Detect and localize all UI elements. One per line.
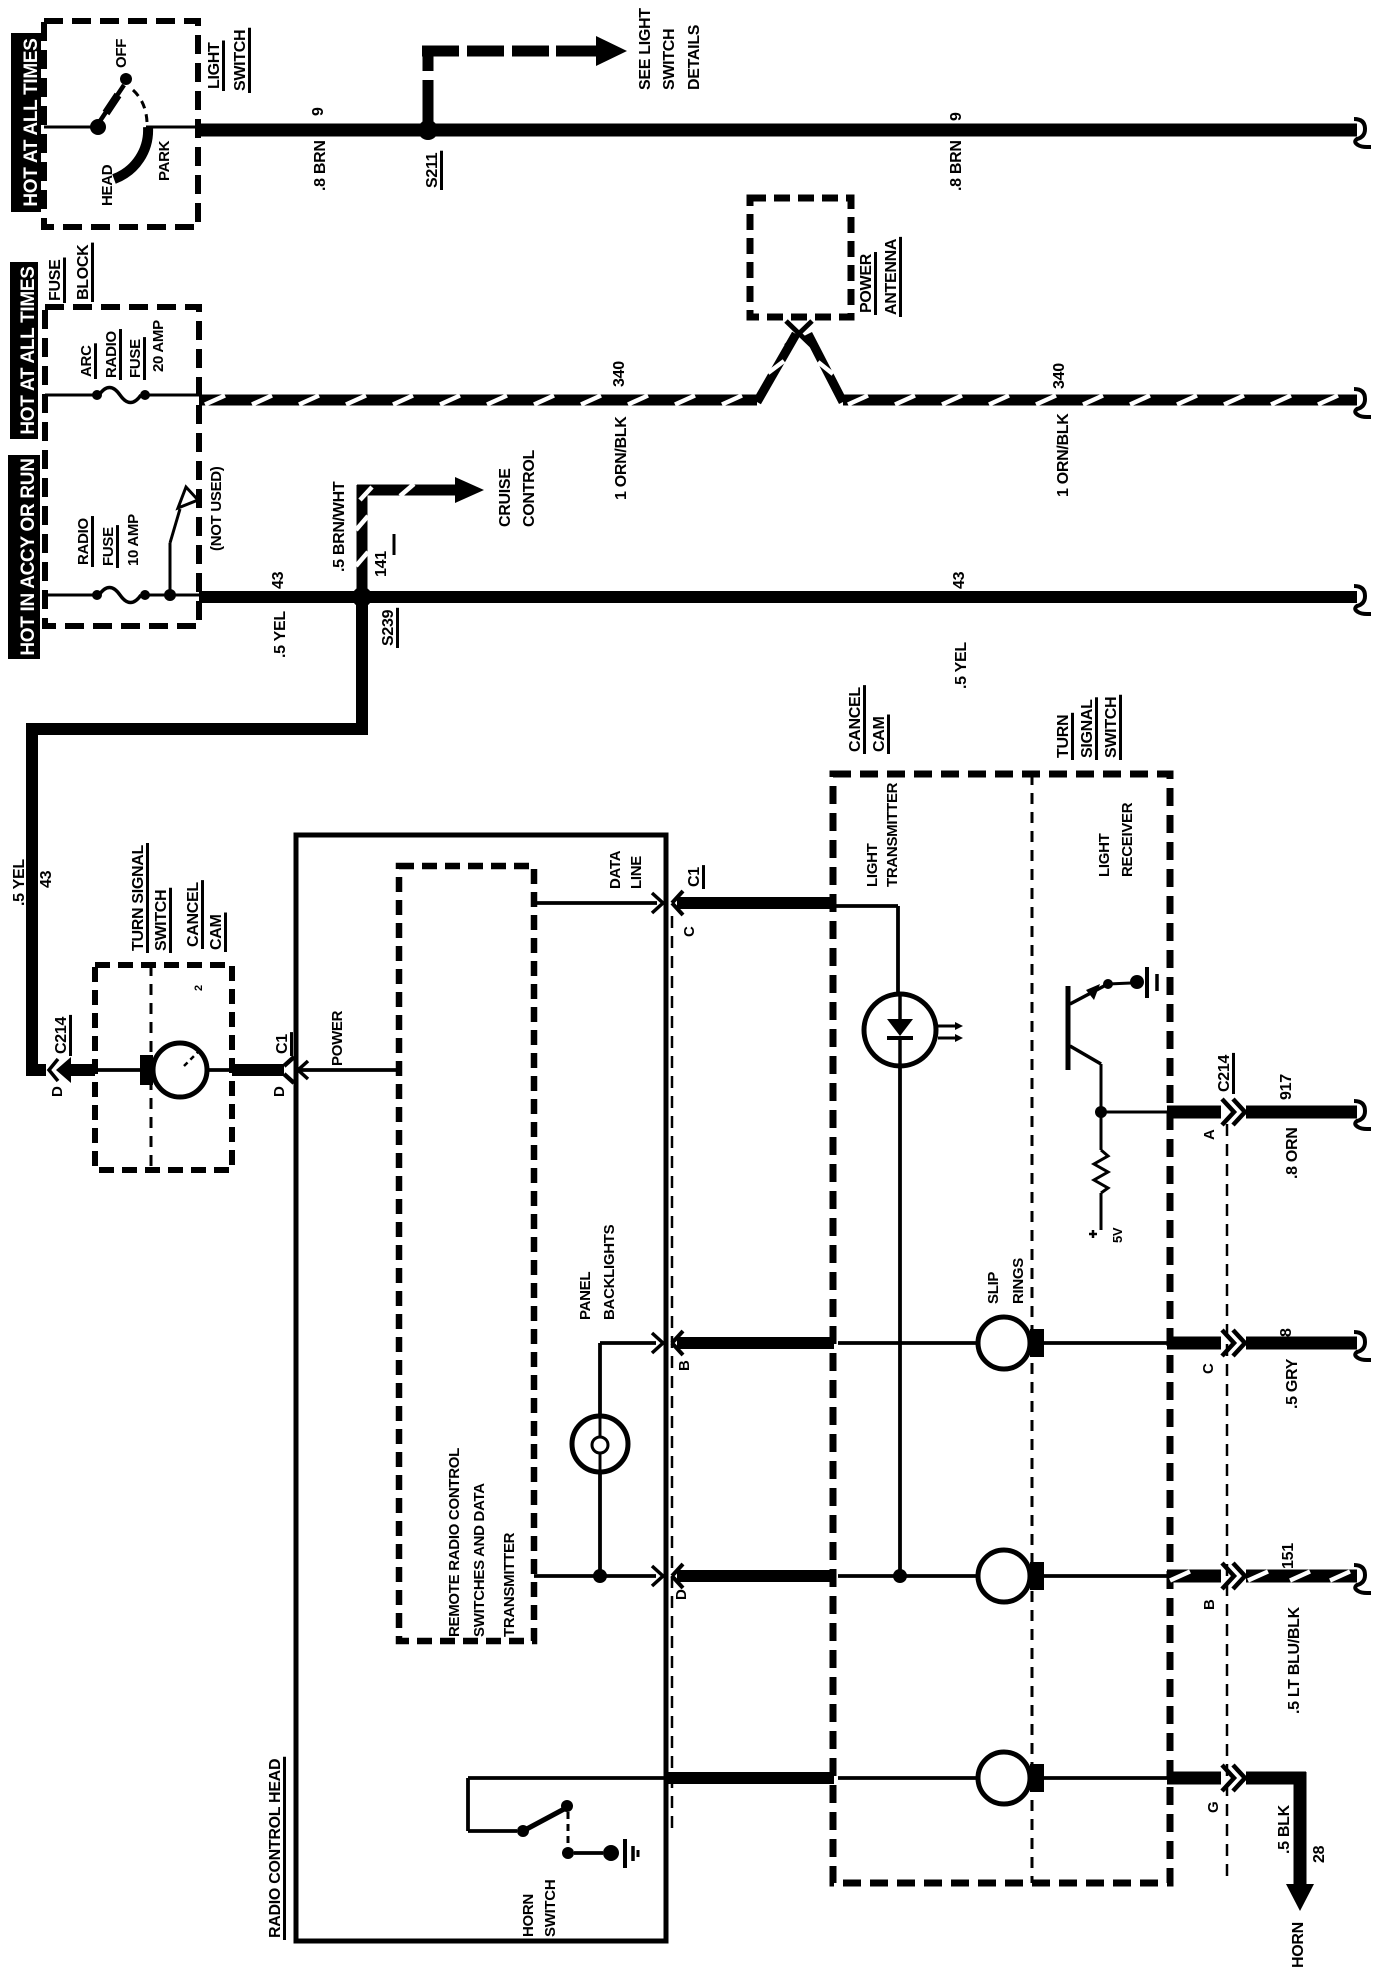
label S239	[380, 608, 398, 648]
divider dashed cancel cam / switch	[1031, 774, 1034, 1883]
label .5 LT BLU/BLK	[1286, 1606, 1303, 1714]
wire .5 BRN/WHT circuit 141 (hatched)	[356, 484, 455, 597]
fuse block dashed box	[45, 307, 199, 626]
wire light switch input	[44, 126, 92, 129]
wire 1 ORN/BLK circuit 340 (hatched)	[199, 334, 1357, 405]
wire DATA LINE	[534, 901, 657, 905]
svg-text:RADIO CONTROL HEAD: RADIO CONTROL HEAD	[267, 1759, 284, 1938]
label C1 (pin D)	[274, 1032, 292, 1056]
phototransistor collector	[1070, 1046, 1101, 1114]
cancel cam contact block	[140, 1055, 153, 1085]
power label HOT AT ALL TIMES (fuse block)	[10, 262, 39, 439]
LED diode symbol	[887, 994, 913, 1066]
label SLIP RINGS	[985, 1258, 1027, 1304]
svg-text:9: 9	[948, 112, 965, 121]
label TURN SIGNAL SWITCH (right)	[1055, 695, 1121, 760]
svg-text:RINGS: RINGS	[1010, 1258, 1027, 1304]
wire .5 GRY circuit 8 (pin C)	[1167, 1337, 1357, 1350]
fuse ARC RADIO FUSE 20 AMP	[92, 388, 199, 403]
svg-text:RADIO: RADIO	[75, 518, 92, 565]
wire collector to pin A	[1101, 1111, 1167, 1114]
label CANCEL CAM (left)	[185, 880, 226, 952]
svg-text:SWITCH: SWITCH	[232, 30, 249, 91]
svg-text:CONTROL: CONTROL	[521, 449, 538, 527]
terminal not used (open)	[178, 487, 198, 508]
svg-text:LINE: LINE	[628, 856, 645, 889]
svg-text:A: A	[1201, 1129, 1218, 1140]
svg-text:.5 LT BLU/BLK: .5 LT BLU/BLK	[1286, 1606, 1303, 1714]
connector C1 pin B fork	[672, 1331, 683, 1355]
label 1 ORN/BLK (left)	[613, 416, 630, 500]
label C (C1)	[681, 926, 698, 937]
label TURN SIGNAL SWITCH (left)	[130, 843, 171, 953]
divider dashed (left box)	[150, 965, 153, 1170]
wire bulb to pin B	[600, 1343, 656, 1417]
label +5V	[1089, 1227, 1125, 1243]
node horn switch contact 1	[517, 1825, 529, 1837]
power label HOT AT ALL TIMES (light switch feed)	[11, 33, 42, 212]
label 43 (left)	[270, 571, 287, 589]
label B (C1)	[676, 1360, 693, 1371]
label 28	[1311, 1845, 1328, 1863]
svg-text:43: 43	[270, 571, 287, 589]
svg-text:141: 141	[373, 551, 390, 577]
label 1 ORN/BLK (right)	[1055, 413, 1072, 497]
svg-text:FUSE: FUSE	[127, 339, 144, 378]
connector C1 pin D fork	[284, 1057, 294, 1083]
svg-text:HORN: HORN	[520, 1894, 537, 1937]
label LIGHT SWITCH	[206, 28, 250, 93]
svg-text:(NOT USED): (NOT USED)	[208, 466, 225, 551]
label C214 (left)	[53, 1015, 71, 1056]
connector C214 pin D (in-line)	[49, 1057, 95, 1083]
svg-text:G: G	[1205, 1802, 1222, 1813]
connector hook .5 LT BLU/BLK	[1354, 1565, 1371, 1593]
wire not-used tap	[170, 509, 180, 595]
node horn switch contact 2	[561, 1800, 573, 1812]
svg-text:TRANSMITTER: TRANSMITTER	[884, 782, 901, 887]
svg-text:C: C	[1200, 1363, 1217, 1374]
turn signal switch dashed box (left)	[95, 965, 232, 1170]
svg-text:SWITCH: SWITCH	[1103, 697, 1120, 758]
wire dashed branch to light switch details	[422, 48, 598, 126]
svg-text:SWITCH: SWITCH	[153, 890, 170, 951]
splice power antenna (X)	[786, 321, 812, 346]
wire pin B to slip ring (thick)	[677, 1337, 834, 1349]
horn switch arm	[523, 1808, 566, 1831]
wire LED cathode down	[898, 1066, 902, 1576]
wire POWER	[298, 1068, 399, 1072]
svg-text:340: 340	[1051, 363, 1068, 389]
label S211	[424, 151, 442, 190]
svg-text:917: 917	[1278, 1074, 1295, 1100]
svg-text:BLOCK: BLOCK	[75, 244, 92, 300]
svg-text:OFF: OFF	[113, 39, 130, 68]
wire .5 BLK circuit 28 (pin G)	[1167, 1772, 1306, 1884]
connector C214 dashed line	[1226, 1124, 1229, 1884]
svg-text:SEE LIGHT: SEE LIGHT	[637, 8, 654, 90]
svg-text:DETAILS: DETAILS	[686, 24, 703, 90]
svg-text:SIGNAL: SIGNAL	[1079, 699, 1096, 758]
svg-text:43: 43	[951, 571, 968, 589]
wire horn to slip ring (thick)	[666, 1772, 834, 1784]
label HEAD	[99, 164, 116, 206]
label HORN (destination)	[1290, 1922, 1307, 1968]
connector C1 pin D arrow	[298, 1061, 308, 1079]
connector hook right end of .5 YEL	[1354, 586, 1371, 614]
label C214 (right)	[1216, 1053, 1234, 1094]
label CRUISE CONTROL	[497, 449, 538, 527]
label D (C214 left)	[49, 1086, 66, 1097]
label REMOTE RADIO CONTROL SWITCHES AND DATA TRANSMITTER	[446, 1448, 518, 1637]
ground (horn switch)	[603, 1839, 638, 1868]
svg-text:RECEIVER: RECEIVER	[1119, 802, 1136, 877]
slip ring 2 (data)	[838, 1550, 1167, 1602]
svg-text:LIGHT: LIGHT	[864, 843, 881, 887]
label PANEL BACKLIGHTS	[577, 1224, 618, 1320]
slip ring 1 (panel lights)	[838, 1317, 1167, 1369]
connector hook right end of ORN/BLK	[1354, 389, 1371, 417]
connector C1 pin C arrow	[652, 893, 663, 913]
wire to ARC radio fuse	[45, 394, 97, 397]
label D (C1)	[271, 1086, 288, 1097]
label RADIO CONTROL HEAD	[267, 1757, 285, 1940]
resistor to 5V	[1094, 1112, 1108, 1230]
svg-text:9: 9	[310, 107, 327, 116]
power label HOT IN ACCY OR RUN	[8, 455, 40, 659]
svg-text:C214: C214	[53, 1017, 70, 1054]
phototransistor base bar	[1066, 986, 1071, 1070]
label .5 BLK	[1276, 1804, 1293, 1854]
label 9 (right)	[948, 112, 965, 121]
light switch PARK-HEAD contact arc	[114, 127, 148, 179]
svg-text:PARK: PARK	[156, 140, 173, 181]
label PARK	[156, 140, 173, 181]
svg-text:S211: S211	[424, 152, 441, 188]
svg-text:SWITCHES AND DATA: SWITCHES AND DATA	[471, 1483, 488, 1637]
svg-text:D: D	[49, 1086, 66, 1097]
slip ring 3 (horn)	[838, 1752, 1167, 1804]
svg-text:TRANSMITTER: TRANSMITTER	[501, 1532, 518, 1637]
label ARC RADIO FUSE 20 AMP	[78, 320, 167, 380]
light switch dashed travel arc	[133, 90, 147, 122]
svg-text:.5 YEL: .5 YEL	[272, 611, 289, 658]
connector C1 pin B arrow	[652, 1333, 663, 1353]
LED emission arrows	[938, 1022, 963, 1042]
svg-text:.5 GRY: .5 GRY	[1284, 1358, 1301, 1409]
node LED to data wire	[893, 1569, 907, 1583]
label 43 (right)	[951, 571, 968, 589]
svg-text:8: 8	[1278, 1328, 1295, 1337]
connector C214 pin C chevrons	[1222, 1330, 1245, 1356]
wire data to cancel cam (thick)	[677, 897, 834, 909]
label POWER ANTENNA	[858, 237, 901, 317]
light transmitter LED circle	[864, 994, 936, 1066]
label .5 YEL (right)	[953, 642, 970, 689]
arrow to SEE LIGHT SWITCH DETAILS	[596, 36, 627, 66]
svg-text:B: B	[1201, 1599, 1218, 1610]
label .8 BRN (left)	[312, 140, 329, 191]
turn signal switch dashed box (right)	[833, 774, 1170, 1883]
wire to horn ground	[574, 1851, 603, 1855]
svg-text:PANEL: PANEL	[577, 1272, 594, 1320]
label LIGHT TRANSMITTER	[864, 782, 901, 887]
cancel cam circle	[153, 1043, 207, 1097]
label .5 GRY	[1284, 1358, 1301, 1409]
svg-text:2: 2	[193, 985, 205, 991]
wire pin D to slip ring (thick)	[677, 1570, 834, 1582]
label DATA LINE	[607, 850, 645, 889]
label 340 (left)	[611, 361, 628, 387]
label CANCEL CAM (right)	[847, 685, 889, 754]
svg-text:340: 340	[611, 361, 628, 387]
phototransistor emitter	[1070, 984, 1106, 1004]
svg-text:1 ORN/BLK: 1 ORN/BLK	[1055, 413, 1072, 497]
node light switch pivot	[90, 119, 106, 135]
wire to RADIO fuse	[45, 594, 97, 597]
radio control head box	[296, 835, 666, 1941]
svg-text:20 AMP: 20 AMP	[150, 320, 167, 372]
node horn switch contact 3	[562, 1847, 574, 1859]
node not-used tap	[164, 589, 176, 601]
svg-text:28: 28	[1311, 1845, 1328, 1863]
svg-text:ANTENNA: ANTENNA	[883, 238, 900, 315]
label SEE LIGHT SWITCH DETAILS	[637, 8, 703, 90]
light switch wiper arm	[100, 85, 124, 121]
svg-text:.8 BRN: .8 BRN	[948, 140, 965, 191]
svg-text:RADIO: RADIO	[103, 331, 120, 378]
svg-text:SLIP: SLIP	[985, 1272, 1002, 1304]
svg-text:CANCEL: CANCEL	[185, 882, 202, 947]
svg-text:FUSE: FUSE	[100, 527, 117, 566]
svg-text:1 ORN/BLK: 1 ORN/BLK	[613, 416, 630, 500]
svg-text:CRUISE: CRUISE	[497, 468, 514, 527]
arrow to horn	[1286, 1884, 1314, 1911]
label D (C1 right)	[673, 1589, 690, 1600]
svg-text:REMOTE RADIO CONTROL: REMOTE RADIO CONTROL	[446, 1448, 463, 1637]
svg-text:BACKLIGHTS: BACKLIGHTS	[601, 1224, 618, 1320]
light switch dashed box	[44, 21, 198, 227]
svg-text:HOT AT ALL TIMES: HOT AT ALL TIMES	[18, 266, 39, 434]
wire .5 LT BLU/BLK circuit 151 (pin B, hatched)	[1167, 1572, 1357, 1581]
svg-text:.5 BRN/WHT: .5 BRN/WHT	[331, 481, 348, 572]
label .5 YEL (vertical)	[11, 859, 28, 906]
label .5 BRN/WHT	[331, 481, 348, 572]
wire to cancel cam contact	[95, 1068, 140, 1072]
cancel cam footnote 2	[193, 985, 205, 991]
node collector junction	[1095, 1106, 1107, 1118]
node light switch OFF contact	[120, 73, 132, 85]
wire horn switch loop	[468, 1778, 666, 1831]
svg-text:B: B	[676, 1360, 693, 1371]
svg-text:POWER: POWER	[329, 1010, 346, 1066]
splice S239	[352, 587, 372, 607]
label B (C214)	[1201, 1599, 1218, 1610]
wire .5 YEL to turn signal switch	[32, 600, 362, 1070]
label 8	[1278, 1328, 1295, 1337]
label 917	[1278, 1074, 1295, 1100]
svg-text:TURN SIGNAL: TURN SIGNAL	[130, 844, 147, 951]
label FUSE BLOCK	[47, 243, 93, 303]
svg-text:43: 43	[38, 870, 55, 888]
svg-text:.8 BRN: .8 BRN	[312, 140, 329, 191]
svg-text:SWITCH: SWITCH	[542, 1880, 559, 1937]
connector C1 pin C fork	[672, 891, 683, 915]
label (NOT USED)	[208, 466, 225, 551]
wire cancel cam to C1	[207, 1068, 284, 1072]
svg-text:.8 ORN: .8 ORN	[1284, 1127, 1301, 1179]
svg-text:FUSE: FUSE	[47, 259, 64, 301]
svg-text:CAM: CAM	[871, 716, 888, 752]
svg-text:151: 151	[1280, 1543, 1297, 1569]
label 9 (left)	[310, 107, 327, 116]
label .5 YEL (left)	[272, 611, 289, 658]
remote radio control switches box	[399, 866, 534, 1641]
fuse RADIO FUSE 10 AMP	[92, 588, 199, 603]
label .8 BRN (right)	[948, 140, 965, 191]
connector hook right end of .8 BRN	[1354, 119, 1371, 147]
svg-text:CAM: CAM	[208, 914, 225, 950]
splice S211	[418, 120, 438, 140]
wire emitter to ground	[1108, 983, 1131, 984]
svg-text:.5 BLK: .5 BLK	[1276, 1804, 1293, 1854]
svg-text:D: D	[673, 1589, 690, 1600]
connector C1 dashed line	[671, 916, 674, 1832]
wire C to LED	[836, 906, 898, 996]
node bulb to data line	[593, 1569, 607, 1583]
svg-text:CANCEL: CANCEL	[847, 687, 864, 752]
label POWER	[329, 1010, 346, 1066]
svg-text:LIGHT: LIGHT	[1096, 833, 1113, 877]
svg-text:HOT IN ACCY OR RUN: HOT IN ACCY OR RUN	[18, 458, 39, 655]
label C (C214)	[1200, 1363, 1217, 1374]
panel backlights bulb	[572, 1416, 628, 1472]
connector C214 pin G chevrons	[1222, 1765, 1245, 1791]
label .8 ORN	[1284, 1127, 1301, 1179]
svg-text:ARC: ARC	[78, 345, 95, 377]
connector hook .5 GRY	[1354, 1332, 1371, 1360]
connector hook .8 ORN	[1354, 1101, 1371, 1129]
svg-text:S239: S239	[380, 609, 397, 646]
wire transmitter to pin D	[534, 1472, 656, 1576]
node emitter junction	[1103, 979, 1113, 989]
svg-text:C214: C214	[1216, 1055, 1233, 1092]
svg-text:10 AMP: 10 AMP	[125, 514, 142, 566]
svg-text:DATA: DATA	[607, 850, 624, 889]
horn switch link (dashed)	[567, 1812, 570, 1847]
svg-text:HEAD: HEAD	[99, 164, 116, 206]
cancel cam notch mark	[184, 1052, 198, 1066]
svg-text:LIGHT: LIGHT	[206, 42, 223, 89]
label G (C214)	[1205, 1802, 1222, 1813]
wire light switch output	[146, 126, 198, 129]
arrow to cruise control	[455, 477, 484, 503]
connector C1 pin D arrow (right)	[652, 1566, 663, 1586]
svg-text:HORN: HORN	[1290, 1922, 1307, 1968]
svg-text:D: D	[271, 1086, 288, 1097]
label C1 (pin C)	[686, 865, 704, 889]
svg-text:SWITCH: SWITCH	[661, 29, 678, 90]
label OFF	[113, 39, 130, 68]
ground (light receiver)	[1130, 967, 1157, 998]
svg-text:C: C	[681, 926, 698, 937]
connector C214 pin A chevrons	[1222, 1099, 1245, 1125]
label 43 (vertical)	[38, 870, 55, 888]
svg-text:POWER: POWER	[858, 253, 875, 313]
label 340 (right)	[1051, 363, 1068, 389]
svg-text:TURN: TURN	[1055, 715, 1072, 758]
svg-text:C1: C1	[686, 867, 703, 887]
label HORN SWITCH	[520, 1880, 559, 1937]
svg-text:C1: C1	[274, 1034, 291, 1054]
wire .5 YEL circuit 43	[199, 591, 1357, 603]
wire .8 ORN circuit 917 (pin A)	[1167, 1106, 1357, 1119]
label RADIO FUSE 10 AMP	[75, 514, 142, 568]
wire .8 BRN circuit 9 (light switch to right edge)	[198, 124, 1357, 137]
label LIGHT RECEIVER	[1096, 802, 1136, 877]
svg-text:.5 YEL: .5 YEL	[953, 642, 970, 689]
svg-text:.5 YEL: .5 YEL	[11, 859, 28, 906]
label 151	[1280, 1543, 1297, 1569]
power antenna dashed box	[750, 198, 851, 317]
label A (C214)	[1201, 1129, 1218, 1140]
svg-text:5V: 5V	[1110, 1227, 1125, 1243]
label 141	[373, 534, 394, 577]
connector C214 pin B chevrons	[1222, 1563, 1245, 1589]
svg-text:HOT AT ALL TIMES: HOT AT ALL TIMES	[21, 38, 42, 206]
connector C1 pin D fork (right)	[672, 1564, 683, 1588]
